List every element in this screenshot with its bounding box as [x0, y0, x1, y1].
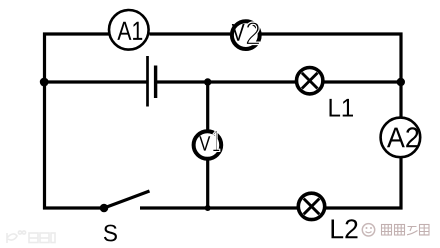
watermark bottom-right logo [362, 224, 374, 236]
node junction middle top [204, 78, 211, 85]
wire top middle segment [150, 32, 231, 35]
watermark bottom-left logo [7, 231, 55, 243]
switch S blade [104, 191, 150, 208]
node junction middle bottom [205, 205, 211, 211]
wire voltmeter V1 branch lower [206, 160, 209, 210]
voltmeter V2 [232, 21, 260, 49]
switch S pivot [100, 204, 109, 213]
battery short plate [154, 66, 157, 99]
node junction left [40, 78, 49, 87]
lamp L2 [298, 193, 324, 219]
wire right vertical upper [399, 33, 402, 118]
label L2 [332, 219, 358, 238]
voltmeter V1 [194, 131, 222, 159]
wire left vertical [43, 33, 46, 210]
wire middle row right segment [324, 80, 403, 83]
watermark bottom-right text [382, 225, 430, 236]
battery long plate [146, 56, 149, 107]
wire middle row center segment [157, 80, 297, 83]
label L1 [330, 99, 354, 117]
lamp L1 [297, 68, 323, 94]
wire bottom middle segment [140, 206, 298, 209]
wire middle row left segment [43, 80, 147, 83]
node junction right [397, 78, 405, 86]
wire bottom right segment [325, 206, 403, 209]
ammeter A2 [381, 118, 421, 158]
wire voltmeter V1 branch upper [206, 81, 209, 131]
wire bottom left segment [43, 206, 104, 209]
wire top left segment [43, 32, 109, 35]
wire right vertical lower [399, 158, 402, 210]
label S [104, 225, 117, 242]
ammeter A1 [109, 10, 149, 50]
wire top right segment [261, 32, 403, 35]
